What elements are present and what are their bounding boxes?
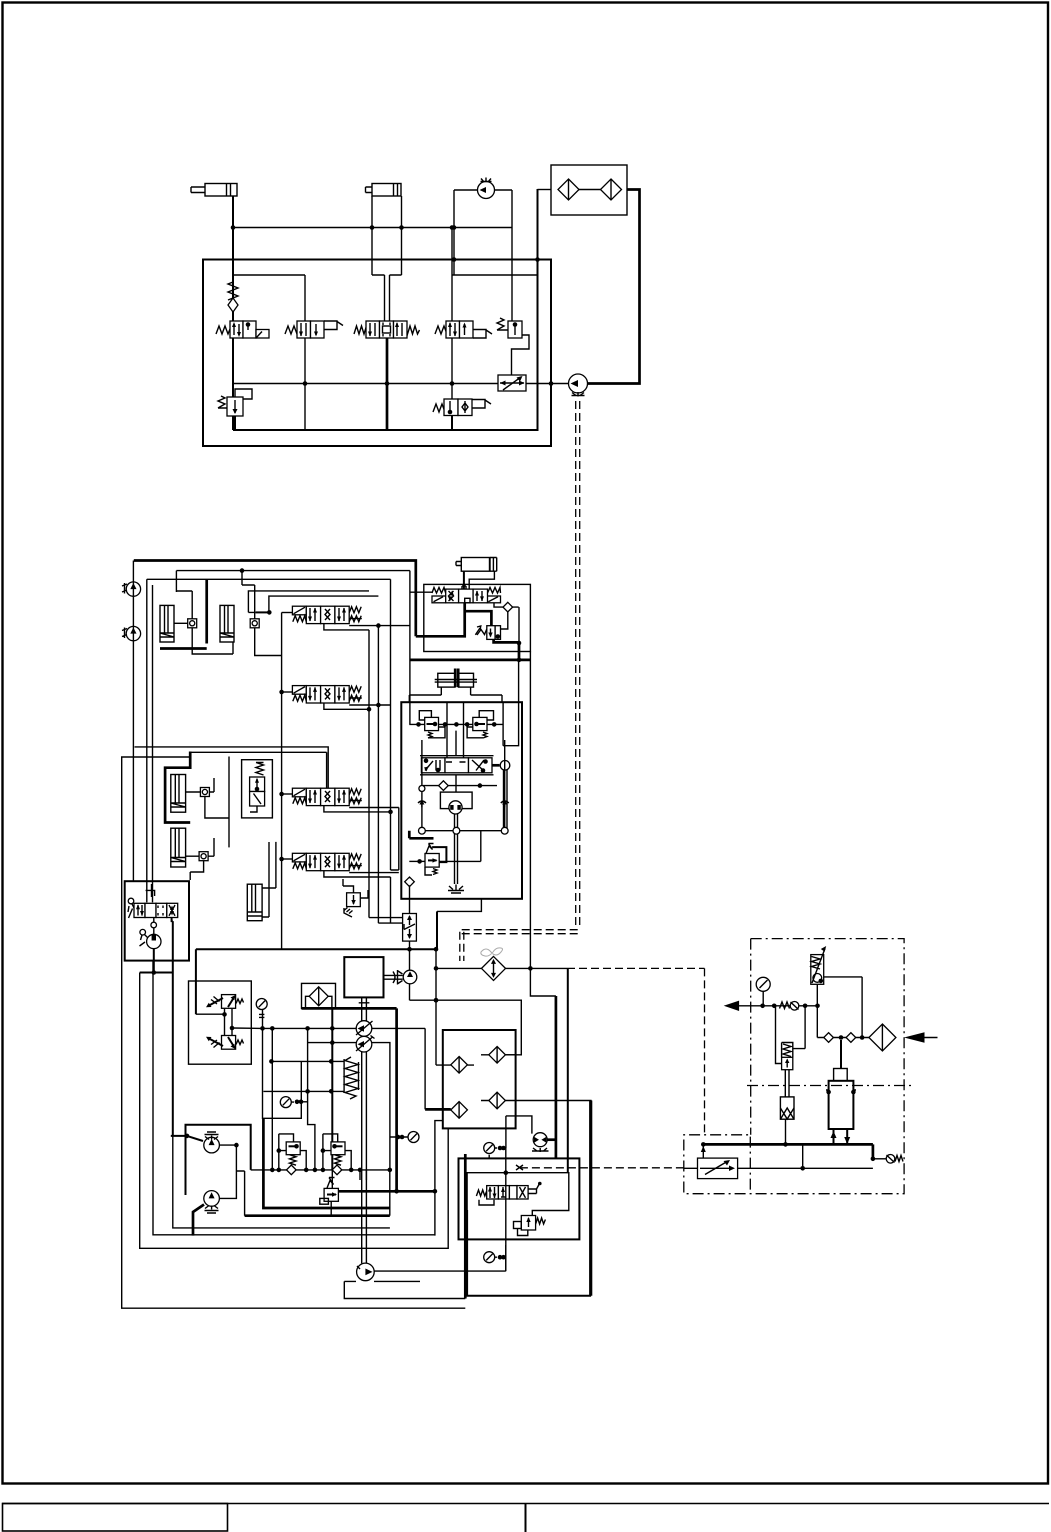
shuttle on line 1	[286, 1165, 296, 1175]
wire left column	[132, 561, 134, 882]
check valve box	[443, 1030, 516, 1128]
wire pump motor	[547, 1138, 556, 1141]
cylinder (top-left)	[191, 184, 237, 197]
flow control valve (block)	[498, 375, 526, 391]
inner block bottom	[233, 189, 538, 430]
check diamond 4	[489, 1092, 506, 1109]
gauge3	[484, 1143, 495, 1154]
valve stack B	[292, 686, 361, 703]
wire cooler out bold	[588, 190, 640, 384]
bold right vertical	[464, 1154, 467, 1299]
corridor verticals bottoms	[369, 918, 403, 924]
wire cb cross	[409, 723, 502, 725]
fan symbol	[481, 948, 503, 956]
wire x436 down	[435, 949, 437, 1065]
wires blade block bold	[416, 603, 465, 637]
check sq boom right	[250, 619, 259, 628]
relief valve (block lower-left)	[218, 389, 252, 416]
fan motor (top)	[478, 178, 495, 199]
dashed pilot to right	[567, 968, 705, 1134]
reduce valve	[409, 831, 481, 875]
rotary joint	[435, 669, 477, 688]
engine shaft dashed (pump to lower)	[576, 401, 580, 928]
small cylinder mid	[247, 842, 276, 921]
bold x263 drop	[263, 1118, 389, 1208]
fan block dash-dot border	[684, 939, 904, 1194]
inner frame circles	[422, 740, 505, 834]
wire travel drain	[437, 899, 481, 912]
cooler diamond 2	[601, 179, 622, 200]
wire swing drops	[272, 1028, 315, 1170]
pump (fan pump)	[569, 374, 588, 397]
main pump P2	[356, 1036, 375, 1052]
swing valve upper	[206, 995, 244, 1009]
fan drain line	[703, 1144, 873, 1158]
wire y1091.3	[263, 1090, 344, 1092]
arm cylinder lower	[171, 828, 186, 867]
check diamond 1	[451, 1057, 468, 1074]
port relief 1	[277, 1134, 307, 1170]
wire y948.8	[196, 948, 436, 950]
wire cyl1 drop	[232, 196, 234, 430]
wires checkbox	[425, 1108, 451, 1111]
motor frame	[186, 1125, 251, 1195]
blade relief	[475, 626, 500, 640]
title strip divider	[525, 1504, 527, 1532]
swing valve links	[225, 1009, 233, 1036]
reducing valve	[776, 1006, 806, 1070]
travel motor	[440, 792, 472, 814]
small check diamonds	[824, 1033, 834, 1043]
bold relief line	[338, 1190, 435, 1193]
boom port wires	[256, 611, 270, 613]
title strip top line	[2, 1503, 1049, 1505]
solenoid valve	[476, 1182, 541, 1199]
valve V5 (pilot relief)	[497, 318, 529, 375]
wire solenoid drop	[479, 1148, 506, 1271]
wire motor shaft	[455, 731, 457, 793]
counterbalance right	[467, 711, 493, 738]
valve V1	[216, 321, 269, 338]
mid divider dash-dot	[747, 1085, 911, 1087]
valve stack A	[292, 606, 361, 623]
dashed line to fc2	[520, 1167, 684, 1169]
filter assembly	[302, 983, 336, 1008]
wire y579.3	[147, 579, 391, 902]
gauge4	[408, 1132, 419, 1143]
wire V3 drop bold	[386, 338, 389, 430]
wire x153	[153, 961, 435, 1235]
wire y1169.9	[251, 1169, 390, 1171]
flush arrows right	[501, 800, 509, 807]
wires joint funnel	[409, 687, 502, 702]
cooler diamond 1	[558, 179, 579, 200]
long vertical x530	[530, 652, 556, 997]
frame y752.3	[190, 752, 326, 788]
wire x518.6 inner	[503, 643, 518, 746]
wire x305 drop	[304, 275, 306, 430]
suction bold	[302, 1008, 397, 1191]
solenoid block outer	[459, 1158, 580, 1239]
regulator zigzag	[345, 1057, 358, 1099]
wires boom cyl group	[160, 579, 207, 648]
main relief	[320, 1170, 339, 1216]
wire filter feed	[538, 189, 552, 191]
travel flow valve	[403, 899, 417, 949]
wire y570.6	[176, 571, 410, 592]
inlet arrow	[915, 1037, 938, 1039]
blade valve	[432, 586, 501, 603]
blade block rect	[424, 584, 531, 651]
valve V6	[433, 399, 491, 416]
wire y275 right	[452, 274, 538, 276]
main pump P1	[356, 1021, 373, 1037]
frame top bold	[134, 561, 416, 637]
wire fan motor left leg	[454, 190, 478, 275]
wire handpump down	[140, 949, 173, 973]
cooler diamond	[482, 956, 506, 980]
wire pump to block	[551, 383, 569, 385]
wire x172.8	[171, 921, 203, 1141]
wire fan motor right leg	[495, 190, 513, 321]
travel block rect	[401, 702, 522, 899]
title strip left box	[3, 1504, 228, 1532]
boom cylinder left	[160, 605, 174, 642]
boom cylinder right	[220, 605, 234, 642]
tank drop bold	[331, 1008, 333, 1170]
pump case rect	[344, 1281, 465, 1298]
wire top manifold y227	[233, 227, 512, 229]
lock valve box	[242, 760, 273, 818]
gauge bottom	[484, 1252, 495, 1263]
bold y1215.7	[245, 1214, 390, 1217]
valve stack D	[292, 853, 361, 870]
wires arm group	[165, 752, 190, 823]
wire cyl2 drops	[372, 196, 402, 275]
counterbalance left	[419, 711, 445, 738]
oil cooler box (top-right)	[551, 165, 627, 215]
wire P2 out right	[371, 1043, 390, 1170]
wires valve C	[282, 793, 293, 795]
wire V6 drop	[451, 416, 453, 431]
flow control 2	[684, 1144, 873, 1178]
wire blade cyl drop	[463, 571, 465, 589]
shaft ticks	[359, 997, 370, 1013]
pump motor circle	[532, 1133, 549, 1152]
wire relief drop	[234, 416, 236, 430]
wire x435 tank	[435, 1121, 443, 1236]
right travel motor	[204, 1191, 220, 1213]
arm cylinder upper	[171, 775, 186, 813]
check diamond	[405, 877, 415, 887]
wire y1044 left	[308, 1042, 357, 1044]
big rect	[467, 1101, 590, 1296]
bold y660	[410, 659, 531, 662]
gauge2	[280, 1097, 291, 1108]
wire pilot pump	[410, 949, 522, 1055]
wire funnel cyl2	[372, 275, 402, 321]
swing gauge	[256, 999, 267, 1010]
swing valve lower	[206, 1036, 244, 1050]
solenoid relief	[514, 1216, 546, 1236]
cooler line	[436, 967, 567, 969]
check sq arm lower	[199, 852, 208, 861]
wire x452 drop	[451, 228, 453, 400]
travel pilot valve	[420, 703, 510, 831]
wire y1061.4	[271, 1060, 344, 1062]
tank arrow	[737, 1005, 817, 1007]
wire x151.5 drop	[152, 585, 154, 902]
wire gauge + pump line	[374, 1245, 506, 1271]
wire x360 drop	[360, 1170, 366, 1180]
wires valve D	[282, 858, 293, 860]
check with spring	[780, 1002, 799, 1011]
fan relief	[811, 946, 862, 1038]
travel relief	[343, 879, 368, 917]
engine box	[344, 957, 383, 997]
frame left big rect	[122, 757, 466, 1308]
bold drop x556	[555, 996, 558, 1158]
wire case left	[344, 1280, 420, 1282]
gear pump	[357, 1263, 375, 1281]
fan gauge	[756, 977, 770, 1006]
servo piston	[780, 1070, 794, 1145]
wires valve A	[282, 612, 293, 614]
wire cooler internal	[579, 189, 601, 191]
wire y275 left	[233, 274, 305, 276]
port relief 2	[321, 1134, 352, 1170]
solenoid block inner	[467, 1173, 569, 1216]
wires travel motors	[219, 1145, 236, 1198]
flush arrows left	[418, 800, 426, 807]
left pump lower	[122, 626, 141, 640]
wire main y383	[233, 383, 498, 385]
valve stack C	[292, 788, 361, 805]
left pump upper	[122, 582, 141, 596]
valve V4	[435, 321, 492, 338]
cylinder (top-center)	[366, 184, 402, 197]
valve V3 (4-position)	[354, 321, 420, 338]
check spring right	[871, 1155, 903, 1164]
check diamond 3	[451, 1102, 468, 1119]
shuttle diamond blade	[503, 602, 513, 612]
shuttle on line 2	[332, 1165, 342, 1175]
wire y1028.5	[262, 1027, 357, 1029]
wires valve B	[282, 691, 293, 693]
outer valve block	[203, 260, 551, 447]
wire x139.7	[140, 973, 449, 1249]
spring check (pilot)	[228, 282, 238, 312]
wire gauge stem down	[263, 1028, 302, 1118]
travel shuttle diamond	[439, 781, 449, 791]
swing block box	[189, 981, 252, 1064]
main filter	[869, 1024, 896, 1051]
valve V2	[285, 321, 343, 338]
check sq arm upper	[200, 788, 209, 797]
tandem pump shaft	[362, 1014, 367, 1264]
check diamond 2	[489, 1047, 506, 1064]
check sq boom left	[188, 619, 197, 628]
blade cylinder	[456, 558, 497, 572]
hand pump block	[125, 881, 189, 960]
fan pump body	[826, 1040, 856, 1144]
pilot pump	[384, 970, 417, 985]
left travel motor	[204, 1132, 220, 1153]
wire blade feed	[410, 571, 432, 725]
frame y746.9	[135, 747, 329, 788]
